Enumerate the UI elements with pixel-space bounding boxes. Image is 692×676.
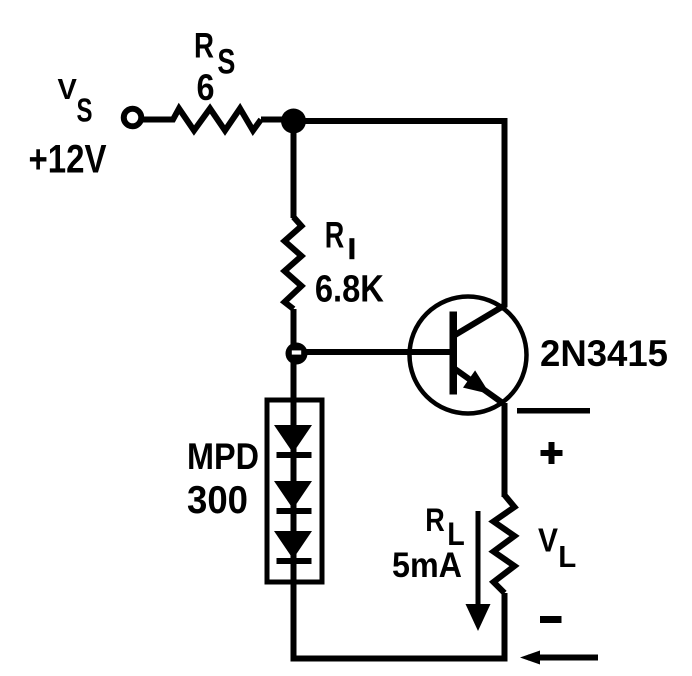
wire through diode string down to bottom wire (291, 400, 297, 659)
svg-text:300: 300 (187, 479, 248, 522)
diode package MPD 300 box (267, 400, 322, 582)
diode D3 (274, 531, 312, 564)
diode D2 (274, 481, 312, 514)
bottom wire (291, 656, 508, 662)
resistor RL (494, 495, 515, 593)
svg-text:S: S (77, 92, 93, 129)
wire junction down to R1 (291, 121, 297, 218)
plus sign (541, 442, 563, 464)
wire RL to bottom wire (502, 593, 508, 659)
transistor collector stroke (455, 305, 506, 336)
svg-text:5mA: 5mA (392, 546, 462, 585)
node base junction (286, 343, 308, 365)
wire emitter down to RL (502, 403, 508, 497)
label RS (194, 27, 235, 82)
svg-text:R: R (325, 214, 345, 255)
minus terminal line with left arrow (520, 651, 598, 665)
terminal VS input (124, 109, 142, 127)
label VS (58, 74, 93, 129)
resistor RS (167, 109, 261, 131)
label VL (538, 521, 576, 573)
minus sign (540, 616, 562, 623)
transistor emitter arrow (463, 370, 490, 394)
wire junction to collector (top right corner) (294, 121, 505, 307)
current arrow 5mA (466, 511, 491, 631)
svg-text:L: L (558, 539, 576, 574)
svg-text:6: 6 (197, 67, 215, 108)
svg-text:V: V (538, 521, 558, 558)
label RL (425, 502, 464, 552)
transistor emitter stroke (455, 369, 504, 404)
wire R1 to base node (291, 309, 297, 348)
transistor Q1 2N3415 circle (410, 297, 527, 414)
wire base node down to diode box (291, 352, 297, 400)
junction node top (281, 109, 306, 134)
svg-text:+12V: +12V (29, 138, 107, 182)
wire terminal to RS (141, 117, 172, 123)
plus terminal bar (517, 408, 590, 414)
svg-text:MPD: MPD (187, 436, 259, 477)
svg-text:V: V (58, 74, 78, 106)
svg-text:R: R (425, 502, 445, 538)
diode D1 (274, 425, 312, 458)
wire RS to junction (261, 117, 285, 123)
transistor base bar (450, 312, 458, 395)
svg-text:R: R (194, 27, 214, 66)
svg-text:2N3415: 2N3415 (540, 333, 668, 374)
wire base node to transistor base (294, 349, 450, 355)
label R1 (325, 214, 355, 259)
svg-text:S: S (217, 43, 235, 82)
resistor R1 (285, 217, 302, 309)
svg-text:6.8K: 6.8K (315, 268, 384, 310)
